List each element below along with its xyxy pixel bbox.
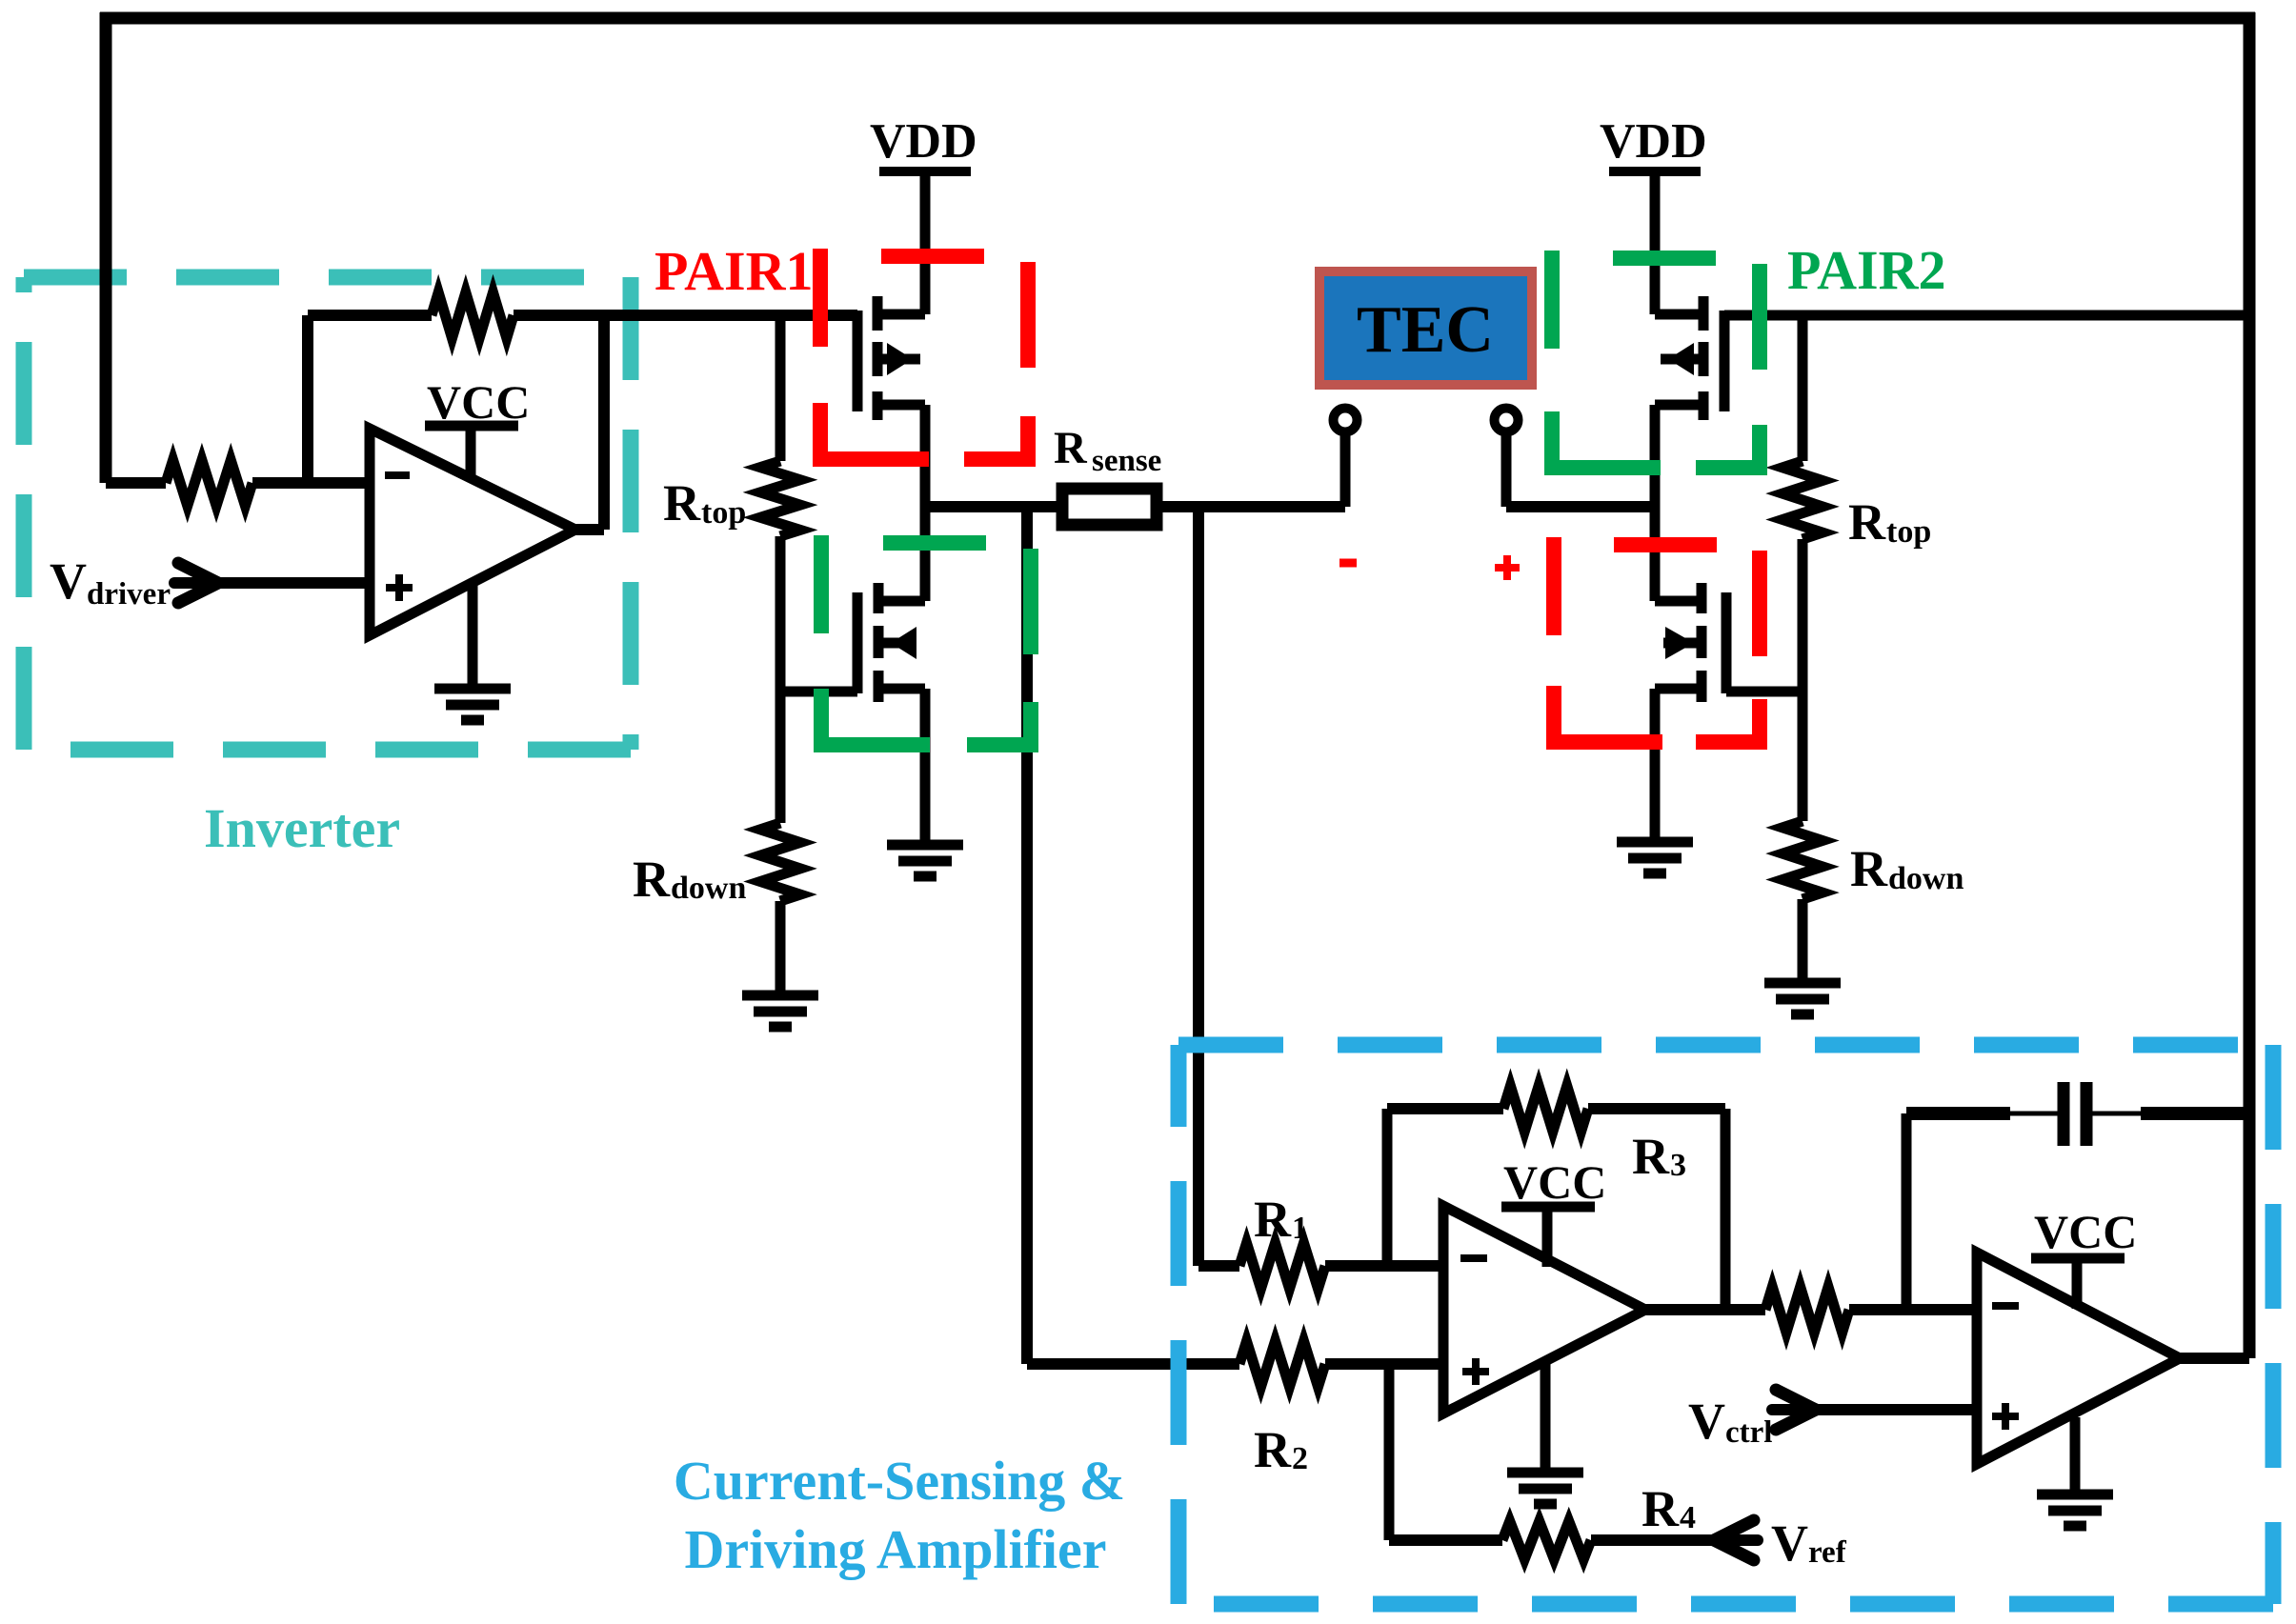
op-amp U2 (current sensing) [1443,1206,1645,1413]
label: Vref [1771,1514,1847,1572]
svg-text:V: V [1771,1514,1808,1572]
resistor Rdown (left) [760,692,800,995]
VCC rail of U2 [1501,1207,1595,1267]
wire: left feedback drop [100,12,112,483]
svg-text:sense: sense [1092,444,1161,478]
transistor M2 (NMOS, PAIR1 bottom) [857,583,925,702]
label: R3 [1632,1128,1686,1185]
wire: M2 gate wire [780,687,857,697]
svg-text:ctrl: ctrl [1725,1415,1772,1450]
VDD supply rail (right) [1609,171,1701,314]
resistor Rtop (right) [1782,315,1823,692]
resistor R2 [1239,1341,1443,1387]
VCC rail of U1 [425,426,518,480]
svg-text:ref: ref [1808,1535,1847,1570]
resistor R1 [1239,1243,1443,1289]
label: TEC [1357,293,1494,367]
resistor: inverter feedback Rf [308,292,857,483]
svg-text:R: R [633,851,671,908]
svg-text:Driving Amplifier: Driving Amplifier [684,1518,1106,1580]
label: VDD (left) [870,114,977,169]
wire: M3 source / M4 drain rail [1650,405,1661,601]
svg-text:VDD: VDD [1600,114,1707,169]
svg-text:VCC: VCC [1503,1155,1606,1209]
wire: top feedback bus [100,12,2255,25]
svg-text:R: R [663,474,701,531]
wire: M1 source / M2 drain rail [920,405,931,601]
svg-text:1: 1 [1292,1211,1308,1246]
label: - polarity [1339,559,1357,568]
label: VCC (U2) [1503,1155,1606,1209]
label: VCC (U3) [2034,1205,2137,1258]
ground under M2 [887,689,963,876]
label: Rdown (left) [633,851,746,908]
svg-text:R: R [1054,423,1088,473]
svg-text:VCC: VCC [2034,1205,2137,1258]
capacitor C1 (U3 feedback) [1906,1082,2249,1310]
current-sensing block dashed box [1178,1045,2273,1604]
wire: TEC positive to PAIR2 rail [1506,501,1657,512]
input port Vctrl [1772,1390,1977,1430]
wire: sense- drop to R2 [1027,507,1239,1364]
resistor: inverter input Rin [106,460,370,506]
label: + polarity [1495,555,1520,580]
label: Rdown (right) [1850,840,1964,897]
svg-text:V: V [50,552,87,610]
red dashed bracket around M1 [813,249,1036,467]
svg-text:R: R [1254,1191,1292,1248]
input port Vref [1714,1520,1758,1560]
svg-text:V: V [1688,1393,1725,1450]
label: Inverter [204,797,400,859]
svg-text:R: R [1850,840,1888,897]
ground under U1 [434,580,511,720]
red dashed bracket around M4 [1546,537,1767,750]
resistor Rsense [1062,489,1157,525]
svg-text:R: R [1848,493,1886,551]
svg-text:R: R [1632,1128,1670,1185]
wire: Rsense right lead [1157,501,1345,512]
input port Vdriver [174,563,370,603]
label: Vctrl [1688,1393,1772,1450]
ground under U2 [1507,1364,1583,1504]
label: R4 [1641,1480,1696,1537]
svg-text:2: 2 [1292,1441,1308,1476]
terminal: TEC positive [1495,409,1519,508]
svg-text:Current-Sensing &: Current-Sensing & [674,1450,1125,1512]
label: PAIR2 [1787,239,1945,301]
svg-text:down: down [671,871,746,906]
label: R1 [1254,1191,1308,1248]
svg-text:driver: driver [87,577,171,612]
label: VCC (U1) [427,375,530,429]
svg-text:TEC: TEC [1357,293,1494,367]
ground under M4 [1617,689,1693,873]
resistor R3 [1387,1086,1725,1310]
op-amp U1 (inverter) [370,429,575,635]
label: Vdriver [50,552,171,612]
wire: Rsense left lead [925,501,1061,512]
wire: right vertical bus [2244,12,2256,1358]
wire: sense+ drop to R1 [1198,507,1239,1266]
svg-text:4: 4 [1680,1500,1696,1535]
VCC rail of U3 [2031,1258,2125,1309]
ground under U3 [2037,1417,2113,1526]
label: Rtop (right) [1848,493,1931,551]
svg-text:VCC: VCC [427,375,530,429]
svg-text:R: R [1641,1480,1680,1537]
label: Current-Sensing & Driving Amplifier [674,1450,1125,1580]
resistor Rdown (right) [1782,692,1823,983]
svg-text:PAIR2: PAIR2 [1787,239,1945,301]
inverter block dashed box [24,277,631,750]
wire: U3 output to right bus [2180,1353,2249,1364]
svg-text:R: R [1254,1421,1292,1478]
green dashed bracket around M2 [814,535,1038,752]
resistor between U2 and U3 (unlabeled) [1645,1287,1977,1333]
green dashed bracket around M3 [1544,251,1767,475]
VDD supply rail (left) [879,171,971,314]
transistor M3 (PMOS, PAIR2 top) [1655,296,1724,420]
svg-text:down: down [1888,861,1964,896]
transistor M1 (PMOS, PAIR1 top) [857,296,925,420]
svg-text:3: 3 [1670,1148,1686,1183]
svg-text:top: top [701,495,746,531]
svg-text:PAIR1: PAIR1 [655,240,813,302]
resistor Rtop (left) [760,315,800,692]
label: VDD (right) [1600,114,1707,169]
ground under Rdown (left) [742,995,818,1027]
resistor R4 [1389,1364,1714,1559]
terminal: TEC negative [1334,409,1358,508]
wire: M4 gate wire [1726,687,1803,697]
label: R2 [1254,1421,1308,1478]
transistor M4 (NMOS, PAIR2 bottom) [1655,583,1726,702]
label: Rtop (left) [663,474,746,531]
op-amp U3 (driving amplifier) [1977,1253,2180,1464]
svg-text:VDD: VDD [870,114,977,169]
svg-text:Inverter: Inverter [204,797,400,859]
ground under Rdown (right) [1764,983,1841,1014]
label: PAIR1 [655,240,813,302]
wire: M3 gate to right bus [1724,311,2249,321]
svg-text:top: top [1886,514,1931,550]
TEC module box [1319,271,1532,385]
label: Rsense [1054,423,1161,478]
wire: U1 output to gate bus [575,315,604,530]
